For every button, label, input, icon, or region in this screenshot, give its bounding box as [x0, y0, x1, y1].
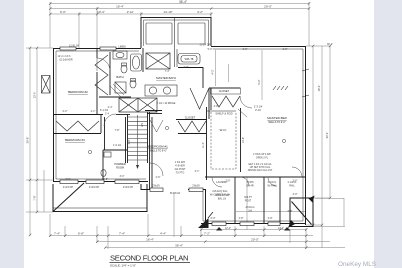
bump-out walls	[141, 18, 211, 49]
bifold master closet	[212, 96, 240, 107]
windows bottom-left wall	[60, 180, 78, 184]
svg-text:WALLS TO 9'-0": WALLS TO 9'-0"	[149, 150, 166, 153]
wall bottom-right exterior	[201, 223, 306, 225]
stairs left wall	[127, 114, 129, 163]
dim line top C	[50, 13, 211, 15]
svg-text:7'-4": 7'-4"	[54, 232, 60, 236]
door arc bedroom2	[97, 58, 110, 71]
wall top-left exterior	[53, 48, 141, 50]
svg-text:12'-2": 12'-2"	[225, 227, 231, 230]
powder fixtures	[101, 170, 106, 177]
svg-text:5'-6": 5'-6"	[208, 48, 213, 51]
roof inner line	[53, 207, 147, 209]
door arc master bed entry	[240, 96, 252, 108]
svg-text:3'-1": 3'-1"	[195, 170, 200, 173]
svg-text:2'-10: 2'-10	[255, 108, 261, 112]
x-box skylight over bath	[146, 53, 170, 69]
svg-text:BEDROOM #3: BEDROOM #3	[65, 138, 85, 142]
garage roof diagonal	[292, 202, 312, 225]
ceiling fixture symbols	[88, 126, 285, 153]
door arcs master bath entry	[190, 88, 209, 109]
svg-text:14'-2": 14'-2"	[278, 227, 284, 230]
bifold bedroom2 closet (vertical, chevrons)	[95, 55, 108, 95]
svg-text:6'-2": 6'-2"	[63, 110, 68, 113]
svg-text:4'x4'6 DH: 4'x4'6 DH	[89, 186, 99, 189]
svg-text:POST: POST	[245, 200, 252, 203]
svg-text:7'-2": 7'-2"	[204, 232, 210, 236]
wp tub master	[178, 54, 200, 65]
master bath double vanity	[145, 85, 177, 96]
wall bedroom2/bedroom3 horizontal	[53, 114, 103, 116]
svg-text:10'-4": 10'-4"	[97, 10, 105, 14]
svg-text:2'-3 1/4: 2'-3 1/4	[254, 105, 263, 109]
closet bedroom1 bottom	[178, 133, 206, 135]
svg-text:2x8: 2x8	[248, 210, 253, 213]
wall WIC/masterbed vertical	[240, 108, 242, 172]
windows right wall	[302, 69, 309, 71]
svg-text:7'-8": 7'-8"	[115, 129, 120, 132]
window box left wall	[42, 76, 51, 94]
svg-text:30'-4": 30'-4"	[325, 132, 329, 139]
wall middle bottom horizontal	[205, 176, 306, 178]
svg-text:(2) 2x8 HDR: (2) 2x8 HDR	[59, 59, 73, 62]
svg-text:16'-8": 16'-8"	[102, 178, 108, 181]
x-box open to below stairs	[119, 98, 157, 112]
window hatch marks	[273, 86, 288, 90]
closet bedroom3 bottom wall	[53, 133, 101, 135]
svg-text:BAL LN: BAL LN	[218, 198, 226, 201]
svg-text:2'-8": 2'-8"	[268, 217, 273, 220]
svg-text:WPL TB: WPL TB	[185, 58, 194, 61]
svg-text:W/ COPPER FLSH: W/ COPPER FLSH	[210, 194, 231, 197]
extension verticals top	[49, 2, 51, 48]
svg-text:20'-0": 20'-0"	[264, 5, 272, 9]
svg-text:4'-1": 4'-1"	[91, 110, 96, 113]
svg-text:BATH: BATH	[116, 75, 123, 79]
svg-text:4'-2": 4'-2"	[211, 69, 215, 74]
extension verticals bottom	[49, 214, 51, 237]
svg-text:DN 4R: DN 4R	[246, 185, 253, 188]
closet strip bedroom2	[109, 52, 111, 95]
dimension slash ticks	[29, 2, 332, 249]
svg-text:1'-6 1/2: 1'-6 1/2	[113, 144, 122, 147]
svg-text:7'-4": 7'-4"	[119, 232, 125, 236]
svg-text:20 3/4 DR: 20 3/4 DR	[200, 43, 211, 46]
svg-text:7'-4": 7'-4"	[165, 70, 170, 73]
bifold bedroom3 closet	[56, 121, 99, 131]
svg-text:13'-0": 13'-0"	[33, 92, 37, 99]
svg-text:12.00 1/8: 12.00 1/8	[69, 44, 80, 47]
svg-text:2'-8": 2'-8"	[239, 217, 244, 220]
svg-text:2'-6": 2'-6"	[226, 180, 231, 183]
svg-text:3'-0": 3'-0"	[120, 175, 125, 178]
stair treads	[128, 116, 147, 118]
right dim verticals	[312, 46, 314, 225]
bifold bedroom1 closet	[178, 121, 206, 132]
dim line bottom A	[50, 235, 313, 237]
svg-text:2 1/2 x 10 RIDGE: 2 1/2 x 10 RIDGE	[157, 102, 176, 105]
wall right exterior	[305, 46, 307, 225]
svg-text:36'-4": 36'-4"	[179, 0, 187, 4]
wall laundry vertical	[234, 177, 236, 223]
svg-text:OneKey MLS: OneKey MLS	[338, 261, 376, 268]
closet box master	[211, 88, 241, 94]
wall bedroom1 top	[147, 113, 162, 115]
svg-text:2'8x3'6: 2'8x3'6	[192, 185, 200, 188]
dim line bottom-right inner	[201, 229, 306, 231]
svg-text:5'-0": 5'-0"	[66, 178, 71, 181]
shower master bath	[115, 82, 126, 93]
svg-text:CLOSET: CLOSET	[219, 89, 230, 93]
toilet master bath	[130, 80, 136, 88]
svg-text:30'-4": 30'-4"	[327, 43, 333, 46]
svg-text:4'-8 HDR: 4'-8 HDR	[175, 165, 185, 168]
svg-text:ABOVE 2x10 CLG JST: ABOVE 2x10 CLG JST	[248, 169, 273, 172]
wall inner face lines	[55, 51, 57, 179]
svg-text:4'-0": 4'-0"	[293, 193, 298, 196]
svg-text:36 1/8 LR: 36 1/8 LR	[170, 192, 181, 195]
svg-text:2'-4": 2'-4"	[108, 106, 113, 109]
svg-text:30'-8": 30'-8"	[26, 137, 30, 144]
svg-text:2'-8": 2'-8"	[214, 105, 219, 108]
tub bath	[131, 54, 142, 71]
stairs right wall	[149, 112, 151, 189]
windows mid-bottom wall	[150, 188, 163, 192]
svg-text:2'8x3'6: 2'8x3'6	[152, 185, 160, 188]
svg-text:9'-0": 9'-0"	[243, 48, 248, 51]
stair direction line	[137, 115, 139, 168]
wall masterbath right	[202, 67, 204, 88]
wall top-right exterior	[211, 46, 306, 48]
svg-text:4'x4'6 DH: 4'x4'6 DH	[123, 186, 133, 189]
svg-text:4'x4'6 DH: 4'x4'6 DH	[63, 186, 73, 189]
wall bedroom1/WIC vertical	[206, 107, 208, 180]
svg-text:W.I.C: W.I.C	[220, 128, 227, 132]
svg-text:BEDROOM #2: BEDROOM #2	[68, 90, 88, 94]
svg-text:20'-0": 20'-0"	[251, 238, 259, 242]
svg-text:4'-2": 4'-2"	[197, 10, 203, 14]
wall vertical mid-bottom	[205, 189, 207, 223]
svg-text:SECOND FLOOR PLAN: SECOND FLOOR PLAN	[110, 253, 189, 262]
svg-text:W/ RAIL: W/ RAIL	[268, 185, 278, 188]
svg-text:14'-10": 14'-10"	[163, 10, 172, 14]
wall hall vertical	[263, 177, 265, 223]
svg-text:13'-8": 13'-8"	[242, 137, 245, 143]
svg-text:4'-4": 4'-4"	[160, 232, 166, 236]
wall closet2 vertical	[279, 177, 281, 223]
bump-out inner rects	[146, 18, 205, 68]
svg-text:TO FTG: TO FTG	[176, 172, 185, 175]
svg-text:6'-2": 6'-2"	[283, 48, 288, 51]
door arcs bottom rooms	[212, 177, 222, 187]
dim line top B	[50, 8, 309, 10]
toilet bath	[121, 65, 127, 73]
svg-text:WALLS TO 9'-0": WALLS TO 9'-0"	[268, 121, 285, 124]
svg-text:7'-8": 7'-8"	[33, 195, 37, 200]
wall left exterior	[53, 48, 55, 181]
svg-text:LINEN: LINEN	[118, 46, 125, 49]
svg-text:SCALE: 1/4" = 1'-0": SCALE: 1/4" = 1'-0"	[110, 264, 136, 268]
svg-text:OPEN 2 FL: OPEN 2 FL	[256, 157, 269, 160]
svg-text:11'-2": 11'-2"	[202, 142, 205, 148]
svg-text:6'-8": 6'-8"	[78, 232, 84, 236]
svg-text:17R: 17R	[141, 123, 144, 128]
dim line bottom C	[105, 247, 345, 249]
svg-text:16'-4": 16'-4"	[146, 238, 154, 242]
wall bath/bedroom2 vertical	[96, 48, 98, 58]
wall bottom-left exterior	[53, 181, 148, 183]
wall masterbath bottom / masterbed top	[145, 110, 162, 112]
windows top-left wall	[60, 47, 76, 50]
door arc bedroom3	[104, 114, 116, 126]
svg-text:CLOSET: CLOSET	[185, 116, 196, 120]
door WIC diagonal	[238, 109, 247, 117]
door arc bedroom1 chevron	[150, 120, 163, 132]
svg-text:9'-2": 9'-2"	[257, 79, 261, 84]
svg-text:6'-0": 6'-0"	[211, 217, 216, 220]
svg-text:BEDROOM #1: BEDROOM #1	[148, 145, 168, 149]
wall bottom-middle exterior	[141, 184, 163, 190]
svg-text:2'-6": 2'-6"	[156, 176, 161, 179]
svg-text:3'-6": 3'-6"	[128, 139, 131, 144]
left dim verticals	[29, 48, 31, 236]
garage roof square	[290, 198, 313, 227]
arrow head bottom-left of square	[288, 220, 295, 228]
wall bath bottom	[99, 96, 131, 98]
svg-text:2'-4: 2'-4	[105, 113, 110, 116]
svg-text:2'-8": 2'-8"	[184, 66, 189, 69]
svg-text:MASTER BATH: MASTER BATH	[156, 76, 176, 80]
windows bottom-right wall	[212, 222, 226, 226]
right gray band	[374, 0, 402, 268]
svg-text:6'-0": 6'-0"	[60, 10, 66, 14]
wall bath right vertical	[142, 48, 144, 72]
svg-text:MASTER BED: MASTER BED	[267, 116, 287, 120]
svg-text:RAIL: RAIL	[289, 185, 295, 188]
svg-text:SHELF & ROD: SHELF & ROD	[215, 112, 232, 116]
interior dim verticals master bed	[215, 50, 217, 86]
roof diagonal	[53, 183, 84, 212]
left gray band	[0, 0, 24, 268]
svg-text:6'-8": 6'-8"	[288, 210, 293, 213]
sink bath	[113, 51, 127, 59]
roof rect outline	[53, 184, 147, 212]
WIC dashed shelves	[211, 112, 236, 169]
powder room walls	[103, 149, 127, 151]
svg-text:36'-4": 36'-4"	[175, 244, 183, 248]
svg-text:ROOM: ROOM	[116, 167, 124, 170]
svg-text:16'-4": 16'-4"	[116, 5, 124, 9]
arrow head top-right of square	[309, 196, 315, 203]
dim line top A	[50, 3, 309, 5]
dim line bottom B	[97, 241, 330, 243]
svg-text:2'-10: 2'-10	[127, 10, 134, 14]
powder room door diagonals	[110, 86, 121, 97]
svg-text:16'-4": 16'-4"	[317, 85, 321, 92]
roof arrow fill bottom-middle	[198, 218, 209, 228]
